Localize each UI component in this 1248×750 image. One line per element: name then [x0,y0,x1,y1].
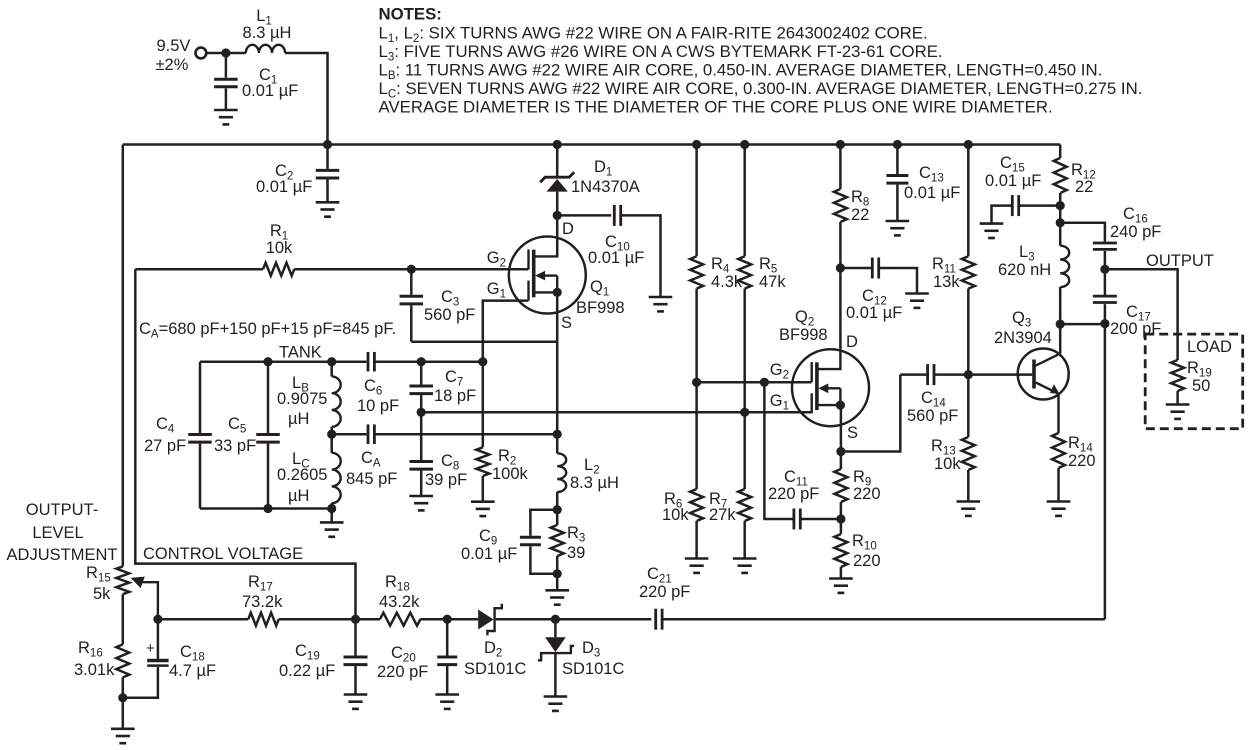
ground [435,695,459,709]
junction dot [478,357,487,366]
wire Q1 gate1 [483,301,529,362]
svg-text:BF998: BF998 [779,326,828,344]
junction dot [740,408,749,417]
svg-text:LEVEL: LEVEL [32,524,83,542]
junction dot [964,140,973,149]
note line 4 [379,79,1143,101]
ground [905,294,929,308]
svg-text:27 pF: 27 pF [144,437,186,455]
svg-text:73.2k: 73.2k [242,593,283,611]
capacitor C14 [900,364,968,425]
capacitor CA [346,424,397,488]
junction dot [221,48,230,57]
svg-text:560 pF: 560 pF [907,407,958,425]
junction dot [1056,320,1065,329]
svg-text:S: S [561,314,572,332]
ground [316,202,340,216]
capacitor C13 [886,145,960,222]
capacitor C5 [214,362,280,509]
resistor R17 [242,573,283,626]
junction dot [1100,265,1109,274]
capacitor C1 [214,53,298,110]
note line 3 [379,60,1103,82]
junction dot [327,357,336,366]
svg-text:27k: 27k [709,506,736,524]
ground [409,496,433,510]
junction dot [836,263,845,272]
ground [685,559,709,573]
note line 1 [379,23,928,45]
svg-text:0.01 µF: 0.01 µF [985,172,1041,190]
svg-text:D: D [562,220,574,238]
wire feedback drop [1104,324,1107,620]
ground [544,697,568,711]
svg-text:CA​=680 pF+150 pF+15 pF=845 pF: CA​=680 pF+150 pF+15 pF=845 pF. [139,320,396,341]
junction dot [417,408,426,417]
ground [649,297,673,311]
wire control voltage [135,269,355,619]
svg-text:SD101C: SD101C [562,660,624,678]
resistor R13 [931,375,975,502]
ground [980,224,1004,238]
wire Q3 emitter [1057,394,1060,433]
junction dot [760,378,769,387]
capacitor C21 [639,565,1105,630]
svg-text:220 pF: 220 pF [768,485,819,503]
resistor R12 [1054,145,1096,246]
junction dot [351,615,360,624]
svg-text:µH: µH [288,410,309,428]
svg-text:4.3k: 4.3k [711,273,743,291]
svg-text:2N3904: 2N3904 [994,329,1052,347]
power input terminal 9.5V [155,37,206,74]
ground [1166,405,1190,419]
ground [886,221,910,235]
svg-text:22: 22 [851,206,869,224]
wire to Q2 gate2 [697,381,812,384]
svg-text:39: 39 [567,544,585,562]
capacitor C10 [557,205,660,297]
svg-text:220 pF: 220 pF [639,583,690,601]
junction dot [327,504,336,513]
resistor R6 [662,382,703,558]
transistor Q1 dual-gate MOSFET [487,220,625,332]
svg-text:620 nH: 620 nH [998,261,1051,279]
capacitor C9 [461,510,557,574]
junction dot [407,265,416,274]
svg-text:S: S [847,424,858,442]
svg-text:0.01 µF: 0.01 µF [242,82,298,100]
wire tank bottom rail [200,507,332,510]
wire R1 to gate G2 [294,268,528,271]
junction dot [893,140,902,149]
svg-text:47k: 47k [759,273,786,291]
svg-text:CONTROL VOLTAGE: CONTROL VOLTAGE [143,545,303,563]
junction dot [692,378,701,387]
ground [471,502,495,516]
capacitor C6 [357,352,399,415]
junction dot [692,140,701,149]
ground [344,695,368,709]
junction dot [323,140,332,149]
wire mid rail left [332,433,367,436]
svg-text:33 pF: 33 pF [214,437,256,455]
resistor R19 [1171,356,1212,405]
capacitor C12 [840,258,917,323]
junction dot [153,615,162,624]
load box [1145,334,1243,429]
note line 5 [379,97,1053,116]
inductor L1 [243,7,292,53]
svg-text:18 pF: 18 pF [434,387,476,405]
junction dot [836,447,845,456]
junction dot [1056,201,1065,210]
svg-text:0.01 µF: 0.01 µF [846,304,902,322]
svg-text:3.01k: 3.01k [74,661,115,679]
svg-text:OUTPUT-: OUTPUT- [26,501,98,519]
ground [214,110,238,124]
wire to Q2 gate1 [421,411,812,414]
resistor R2 [476,362,528,502]
svg-text:0.01 µF: 0.01 µF [256,178,312,196]
capacitor C3 [400,269,476,342]
svg-text:0.2605: 0.2605 [277,466,327,484]
svg-text:13k: 13k [933,273,960,291]
resistor R5 [738,145,786,413]
junction dot [1056,218,1065,227]
svg-text:10k: 10k [266,239,293,257]
resistor R18 [379,573,420,626]
capacitor C17 [1093,269,1161,338]
svg-text:5k: 5k [93,585,111,603]
svg-text:NOTES:: NOTES: [379,5,442,24]
svg-text:220: 220 [1068,452,1096,470]
svg-text:OUTPUT: OUTPUT [1146,252,1214,270]
svg-text:BF998: BF998 [576,299,625,317]
resistor R14 [1052,433,1096,502]
svg-text:845 pF: 845 pF [346,470,397,488]
svg-text:0.01 µF: 0.01 µF [588,249,644,267]
inductor L2 [557,453,619,509]
junction dot [443,615,452,624]
junction dot [553,140,562,149]
junction dot [263,504,272,513]
svg-text:560 pF: 560 pF [424,306,475,324]
inductor L3 [998,243,1069,324]
resistor R7 [709,412,751,558]
wire Q2 source [840,405,843,451]
wire R8 to Q2 drain [839,268,842,349]
junction dot [118,693,127,702]
svg-text:0.01 µF: 0.01 µF [461,545,517,563]
junction dot [553,211,562,220]
zener diode D1 [540,145,640,257]
svg-text:9.5V: 9.5V [156,37,190,55]
resistor R9 [834,452,880,520]
wire R3 ground stem [556,574,559,591]
wire [135,268,263,271]
potentiometer R15 [86,564,158,644]
ground [545,590,569,604]
wire OUTPUT [1105,269,1178,355]
ground [733,559,757,573]
wire [496,618,652,621]
svg-text:D: D [846,333,858,351]
svg-text:240 pF: 240 pF [1110,223,1161,241]
junction dot [327,430,336,439]
wire supply bus [123,143,1060,146]
resistor R4 [690,145,743,383]
ground [1047,502,1071,516]
wire collector link [1060,323,1105,326]
svg-text:ADJUSTMENT: ADJUSTMENT [7,546,118,564]
svg-text:SD101C: SD101C [464,660,526,678]
capacitor C18 [123,619,216,698]
junction dot [263,357,272,366]
svg-text:+: + [146,640,155,657]
wire ground stem [122,698,125,729]
resistor R10 [834,519,880,579]
wire left supply drop [122,145,125,567]
junction dot [836,140,845,149]
wire C3 to source [411,341,557,344]
wire [206,52,246,55]
svg-text:10k: 10k [934,455,961,473]
svg-text:TANK: TANK [279,344,322,362]
junction dot [740,140,749,149]
resistor R11 [932,145,975,375]
ground [829,579,853,593]
capacitor C20 [377,619,457,694]
capacitor C4 [144,362,212,509]
resistor R16 [74,639,129,698]
svg-text:43.2k: 43.2k [379,593,420,611]
wire [285,53,327,145]
node OUTPUT [1146,252,1214,270]
svg-text:4.7 µF: 4.7 µF [169,662,216,680]
svg-text:220: 220 [853,485,881,503]
svg-text:0.22 µF: 0.22 µF [279,662,335,680]
diode D2 Schottky [464,604,526,678]
wire [158,618,248,621]
wire tank top rail left [200,360,366,363]
wire [420,618,478,621]
svg-text:100k: 100k [492,465,529,483]
svg-text:±2%: ±2% [155,56,188,74]
wire tank ground stem [330,509,333,523]
note CA composition [139,320,396,341]
svg-text:50: 50 [1192,377,1210,395]
inductor LC [277,434,341,508]
diode D3 Schottky [538,619,625,696]
wire Q3 base [968,373,1032,376]
capacitor C16 [1060,205,1161,269]
svg-text:µH: µH [288,487,309,505]
junction dot [553,505,562,514]
svg-text:0.9075: 0.9075 [277,390,327,408]
junction dot [553,569,562,578]
ground [320,522,344,536]
junction dot [964,370,973,379]
ground [111,729,135,743]
capacitor C19 [279,619,368,694]
svg-text:8.3 µH: 8.3 µH [243,24,292,42]
svg-text:220 pF: 220 pF [377,663,428,681]
junction dot [417,357,426,366]
junction dot [836,514,845,523]
svg-text:8.3 µH: 8.3 µH [570,474,619,492]
note line 2 [379,42,943,64]
wire mid rail right [374,433,557,436]
svg-text:1N4370A: 1N4370A [571,178,640,196]
wire Q3 collector [1059,324,1062,354]
svg-text:10k: 10k [662,506,689,524]
capacitor C11 [764,382,841,529]
resistor R1 [263,222,294,276]
notes heading [379,5,442,24]
capacitor C7 [409,362,476,413]
resistor R3 [551,510,586,574]
node CONTROL VOLTAGE [143,545,303,563]
wire Q1 source [556,292,559,453]
junction dot [553,430,562,439]
svg-text:220: 220 [853,552,881,570]
svg-text:22: 22 [1075,178,1093,196]
resistor R8 [834,145,869,269]
junction dot [1100,319,1109,328]
wire [279,618,380,621]
wire tank top rail right [374,360,482,363]
capacitor C2 [256,145,339,203]
transistor Q3 NPN [994,309,1069,400]
capacitor C15 [985,154,1060,224]
ground [957,502,981,516]
node TANK [279,344,322,362]
capacitor C8 [409,412,467,496]
svg-text:39 pF: 39 pF [425,471,467,489]
svg-text:AVERAGE DIAMETER IS THE DIAMET: AVERAGE DIAMETER IS THE DIAMETER OF THE … [379,97,1053,116]
transistor Q2 dual-gate MOSFET [770,308,869,442]
svg-text:0.01 µF: 0.01 µF [904,184,960,202]
junction dot [551,615,560,624]
svg-text:10 pF: 10 pF [357,397,399,415]
note output level adjustment [7,501,118,564]
wire Q2 source to C14 [841,375,900,452]
svg-text:LOAD: LOAD [1187,338,1232,356]
inductor LB [277,362,341,435]
